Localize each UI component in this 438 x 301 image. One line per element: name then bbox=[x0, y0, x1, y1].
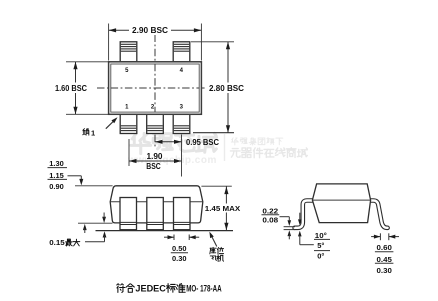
svg-text:2.80 BSC: 2.80 BSC bbox=[209, 84, 244, 93]
svg-text:BSC: BSC bbox=[146, 162, 161, 171]
svg-text:1.45 MAX: 1.45 MAX bbox=[205, 204, 241, 213]
svg-text:1.60 BSC: 1.60 BSC bbox=[55, 84, 87, 93]
svg-text:0.30: 0.30 bbox=[377, 266, 392, 275]
svg-text:0.15: 0.15 bbox=[49, 238, 65, 247]
svg-text:1.90: 1.90 bbox=[147, 152, 164, 161]
svg-text:5°: 5° bbox=[317, 241, 324, 250]
svg-text:0.60: 0.60 bbox=[377, 243, 392, 252]
svg-text:10°: 10° bbox=[315, 231, 327, 240]
svg-text:2.90 BSC: 2.90 BSC bbox=[132, 26, 168, 35]
svg-text:1: 1 bbox=[91, 128, 95, 137]
svg-text:1.15: 1.15 bbox=[49, 171, 64, 180]
svg-text:0.22: 0.22 bbox=[262, 206, 278, 215]
svg-text:0.95 BSC: 0.95 BSC bbox=[186, 138, 219, 147]
svg-text:0.08: 0.08 bbox=[262, 215, 278, 224]
svg-text:JEDEC: JEDEC bbox=[135, 283, 166, 293]
svg-text:0.50: 0.50 bbox=[172, 244, 187, 253]
svg-text:1.30: 1.30 bbox=[49, 159, 64, 168]
svg-text:0.30: 0.30 bbox=[172, 254, 187, 263]
svg-text:0.45: 0.45 bbox=[377, 255, 392, 264]
svg-text:0°: 0° bbox=[317, 251, 324, 260]
svg-text:0.90: 0.90 bbox=[49, 182, 64, 191]
svg-text:MO- 178-AA: MO- 178-AA bbox=[186, 283, 222, 293]
